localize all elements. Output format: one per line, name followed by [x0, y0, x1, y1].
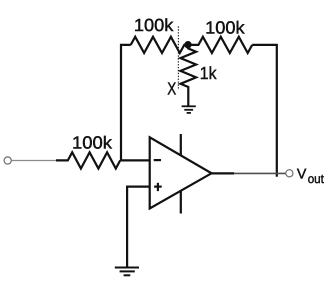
wire output lead from op-amp: [212, 172, 235, 174]
op-amp U1 body: [150, 137, 212, 208]
op-amp negative supply pin: [180, 191, 182, 214]
op-amp non-inverting input marker (plus): [154, 183, 162, 191]
wire feedback left vertical: [121, 45, 131, 160]
svg-text:1k: 1k: [200, 63, 217, 83]
svg-text:V: V: [297, 167, 307, 183]
wire from input terminal to Rin: [12, 160, 57, 162]
svg-text:X: X: [167, 79, 176, 99]
resistor R2 100k (top right): [188, 37, 252, 53]
output terminal: [286, 170, 293, 177]
wire feedback right (top to output): [252, 45, 277, 177]
svg-text:100k: 100k: [72, 132, 112, 152]
input terminal: [4, 157, 11, 164]
svg-text:out: out: [308, 172, 325, 186]
wire Rin to op-amp inverting input: [120, 159, 150, 161]
resistor R1 100k (top left): [131, 37, 188, 53]
dotted marker line for node X: [177, 26, 179, 88]
svg-text:100k: 100k: [205, 18, 245, 38]
resistor Rin 100k: [56, 152, 120, 168]
wire output net to terminal: [234, 172, 285, 174]
wire to non-inverting input: [127, 187, 150, 268]
svg-text:100k: 100k: [134, 15, 174, 35]
resistor R3 1k (vertical): [181, 47, 197, 106]
op-amp positive supply pin: [180, 134, 182, 156]
ground G2 (non-inverting input reference): [115, 268, 139, 276]
junction node dot: [184, 41, 191, 48]
ground G1 (under 1k resistor): [182, 106, 196, 113]
op-amp inverting input marker (minus): [154, 159, 161, 161]
